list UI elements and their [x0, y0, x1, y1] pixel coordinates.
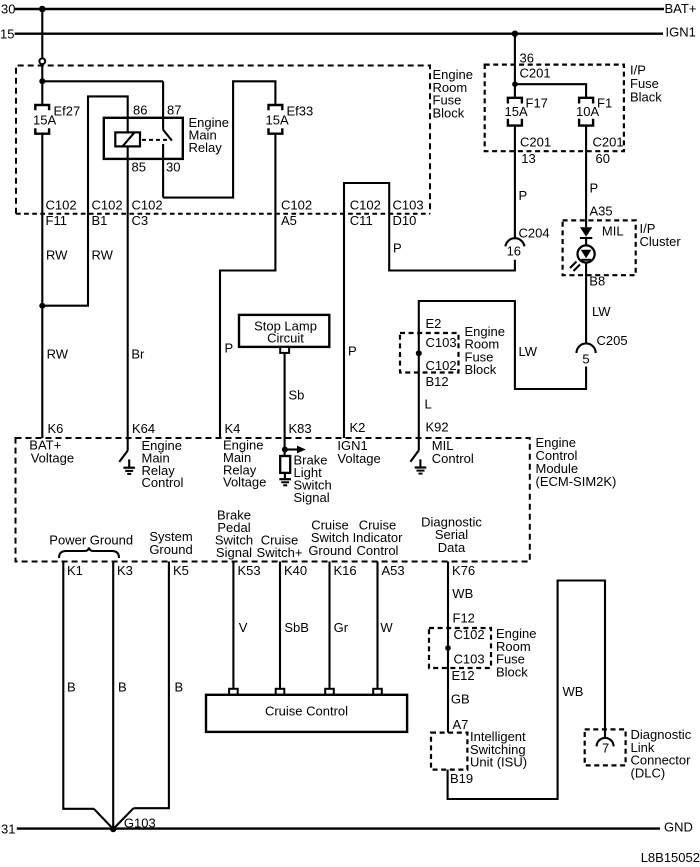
svg-text:K1: K1: [67, 563, 83, 578]
svg-text:C11: C11: [350, 213, 373, 228]
svg-text:C102: C102: [46, 198, 77, 213]
svg-text:A7: A7: [453, 717, 469, 732]
svg-text:Voltage: Voltage: [31, 450, 74, 465]
svg-text:30: 30: [1, 1, 15, 16]
svg-text:W: W: [380, 620, 393, 635]
svg-text:15: 15: [0, 27, 14, 42]
svg-text:Switch+: Switch+: [257, 545, 303, 560]
svg-text:13: 13: [521, 151, 535, 166]
svg-text:GB: GB: [451, 691, 470, 706]
svg-text:Ef33: Ef33: [287, 104, 314, 119]
svg-text:K3: K3: [117, 563, 133, 578]
svg-text:Control: Control: [357, 543, 399, 558]
svg-text:Circuit: Circuit: [267, 331, 304, 346]
svg-text:MIL: MIL: [602, 223, 624, 238]
svg-text:Relay: Relay: [189, 140, 223, 155]
svg-text:BAT+: BAT+: [665, 1, 697, 16]
svg-text:Voltage: Voltage: [337, 451, 380, 466]
svg-text:Ground: Ground: [149, 542, 192, 557]
svg-text:SbB: SbB: [284, 620, 309, 635]
svg-text:C103: C103: [393, 198, 424, 213]
svg-text:C3: C3: [132, 213, 149, 228]
svg-text:B1: B1: [92, 213, 108, 228]
svg-text:RW: RW: [47, 347, 69, 362]
svg-text:(DLC): (DLC): [631, 765, 666, 780]
svg-text:B: B: [118, 680, 127, 695]
svg-text:P: P: [348, 344, 357, 359]
svg-text:K16: K16: [334, 563, 357, 578]
svg-text:Br: Br: [131, 347, 145, 362]
svg-text:RW: RW: [46, 248, 68, 263]
svg-text:31: 31: [1, 822, 15, 837]
svg-text:B: B: [67, 680, 76, 695]
svg-text:RW: RW: [92, 248, 114, 263]
svg-text:Cruise Control: Cruise Control: [265, 704, 348, 719]
svg-text:D10: D10: [393, 213, 417, 228]
svg-text:E2: E2: [426, 316, 442, 331]
svg-text:Signal: Signal: [294, 490, 330, 505]
svg-text:86: 86: [133, 103, 147, 118]
svg-text:15A: 15A: [505, 104, 528, 119]
svg-text:A5: A5: [281, 213, 297, 228]
svg-text:C201: C201: [520, 66, 551, 81]
svg-text:C205: C205: [597, 333, 628, 348]
svg-text:C102: C102: [281, 198, 312, 213]
svg-text:C102: C102: [350, 198, 381, 213]
svg-text:Control: Control: [432, 451, 474, 466]
svg-text:Data: Data: [438, 540, 466, 555]
svg-text:C201: C201: [520, 134, 551, 149]
svg-text:Unit (ISU): Unit (ISU): [470, 755, 527, 770]
svg-text:G103: G103: [124, 816, 156, 831]
svg-text:C103: C103: [454, 652, 485, 667]
svg-text:Black: Black: [630, 89, 662, 104]
svg-text:85: 85: [132, 160, 146, 175]
svg-text:60: 60: [596, 151, 610, 166]
svg-text:C204: C204: [519, 226, 550, 241]
svg-text:K40: K40: [284, 563, 307, 578]
svg-text:F12: F12: [453, 610, 475, 625]
svg-text:C103: C103: [426, 335, 457, 350]
svg-text:K6: K6: [48, 421, 64, 436]
svg-text:LW: LW: [519, 344, 538, 359]
svg-text:K76: K76: [452, 563, 475, 578]
svg-text:P: P: [225, 341, 234, 356]
svg-text:GND: GND: [664, 820, 693, 835]
svg-text:(ECM-SIM2K): (ECM-SIM2K): [536, 474, 617, 489]
svg-text:87: 87: [167, 103, 181, 118]
svg-text:P: P: [590, 180, 599, 195]
svg-text:Ef27: Ef27: [54, 104, 81, 119]
svg-text:A53: A53: [382, 563, 405, 578]
svg-text:Block: Block: [433, 105, 465, 120]
svg-text:K5: K5: [173, 563, 189, 578]
svg-text:Voltage: Voltage: [223, 475, 266, 490]
svg-text:L8B15052: L8B15052: [641, 850, 700, 865]
svg-text:15A: 15A: [33, 113, 56, 128]
svg-text:Block: Block: [465, 362, 497, 377]
svg-text:B8: B8: [589, 274, 605, 289]
svg-text:C102: C102: [454, 627, 485, 642]
svg-text:Cluster: Cluster: [640, 234, 682, 249]
svg-text:E12: E12: [452, 668, 475, 683]
svg-text:C201: C201: [593, 134, 624, 149]
svg-text:K83: K83: [289, 421, 312, 436]
svg-text:Signal: Signal: [216, 545, 252, 560]
svg-text:IGN1: IGN1: [666, 24, 696, 39]
svg-text:36: 36: [520, 51, 534, 66]
svg-text:F11: F11: [46, 213, 67, 228]
svg-text:LW: LW: [592, 304, 611, 319]
svg-text:P: P: [519, 188, 528, 203]
svg-text:Gr: Gr: [334, 620, 349, 635]
svg-text:7: 7: [602, 741, 609, 756]
svg-text:K2: K2: [350, 420, 366, 435]
svg-text:P: P: [393, 241, 402, 256]
svg-text:16: 16: [507, 244, 521, 259]
svg-text:C102: C102: [426, 358, 457, 373]
svg-text:C102: C102: [92, 198, 123, 213]
svg-text:WB: WB: [452, 586, 473, 601]
svg-text:Ground: Ground: [308, 543, 351, 558]
svg-text:B12: B12: [426, 374, 449, 389]
svg-text:Sb: Sb: [289, 388, 305, 403]
svg-text:30: 30: [166, 160, 180, 175]
svg-text:Power Ground: Power Ground: [49, 532, 133, 547]
svg-text:WB: WB: [563, 684, 584, 699]
svg-text:K53: K53: [238, 563, 261, 578]
svg-text:F17: F17: [526, 96, 548, 111]
svg-text:5: 5: [582, 352, 589, 367]
svg-text:L: L: [425, 396, 432, 411]
svg-text:15A: 15A: [266, 113, 289, 128]
svg-text:K92: K92: [426, 420, 449, 435]
svg-text:F1: F1: [597, 96, 612, 111]
svg-text:K64: K64: [132, 421, 155, 436]
svg-text:B: B: [175, 680, 184, 695]
svg-text:K4: K4: [225, 421, 241, 436]
svg-text:A35: A35: [590, 204, 613, 219]
svg-text:Control: Control: [142, 475, 184, 490]
svg-text:Block: Block: [496, 664, 528, 679]
svg-text:C102: C102: [132, 198, 163, 213]
svg-text:V: V: [239, 620, 248, 635]
svg-text:10A: 10A: [576, 104, 599, 119]
svg-text:B19: B19: [450, 771, 473, 786]
